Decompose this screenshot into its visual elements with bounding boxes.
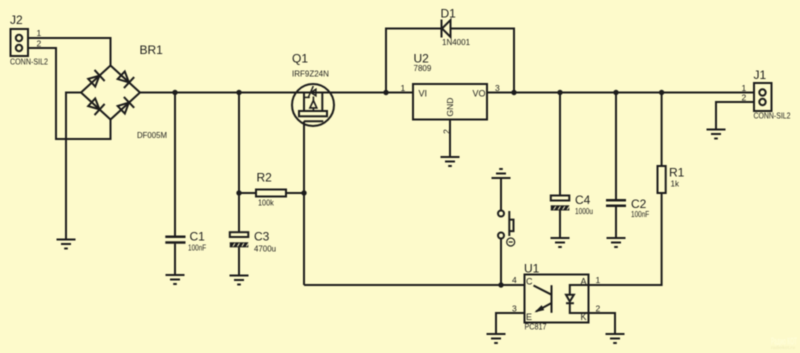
BR1 diamond body bbox=[81, 66, 140, 120]
svg-text:1: 1 bbox=[742, 83, 747, 93]
C2 top plate bbox=[606, 199, 626, 202]
svg-text:1: 1 bbox=[37, 28, 42, 38]
svg-text:VI: VI bbox=[419, 89, 428, 99]
C1 top plate bbox=[165, 235, 185, 238]
svg-text:C1: C1 bbox=[190, 230, 206, 244]
Q1 channel plate bbox=[299, 111, 327, 116]
svg-text:1000u: 1000u bbox=[575, 207, 593, 216]
capacitor C1 bbox=[165, 230, 206, 253]
svg-text:E: E bbox=[526, 312, 532, 322]
svg-text:DF005M: DF005M bbox=[137, 131, 167, 140]
svg-text:3: 3 bbox=[495, 83, 500, 93]
wire D1 top right and cathode-side vertical bbox=[451, 29, 515, 93]
wire R1 bottom lead to U1 pin1 bbox=[589, 193, 662, 285]
junction R2 right / Q1 gate bbox=[301, 190, 306, 195]
ground U1 pin2 bbox=[606, 334, 625, 343]
push button SW bbox=[492, 169, 515, 246]
svg-text:PC817: PC817 bbox=[525, 323, 547, 332]
ground bridge output bbox=[57, 240, 76, 249]
junction rail C1 bbox=[172, 90, 177, 95]
svg-text:J2: J2 bbox=[10, 13, 23, 27]
regulator U2 7809 bbox=[401, 52, 501, 134]
svg-text:GND: GND bbox=[445, 98, 455, 117]
capacitor C4 (electrolytic) bbox=[551, 193, 593, 216]
ground C2 bbox=[607, 238, 626, 247]
wire J2 pin2 to BR1 AC bottom bbox=[28, 48, 111, 139]
svg-text:VO: VO bbox=[473, 89, 486, 99]
BR1 diode bottom-right bbox=[116, 97, 134, 115]
U1 emitter arrowhead bbox=[536, 306, 544, 312]
svg-text:2: 2 bbox=[596, 304, 601, 314]
button actuator bar bbox=[508, 211, 510, 236]
wire trigger horizontal to U1 pin4 bbox=[304, 284, 525, 286]
wire C2 branch from rail bbox=[615, 93, 617, 200]
wire VOUT rail (U2 VO to J1 pin1) bbox=[487, 92, 754, 94]
svg-text:2: 2 bbox=[442, 129, 452, 134]
BR1 diode top-right bbox=[116, 70, 134, 88]
Q1 source arrow decoration bbox=[304, 96, 310, 98]
C1 bottom plate bbox=[165, 241, 185, 244]
junction rail C4 bbox=[557, 90, 562, 95]
U1 phototransistor bbox=[534, 285, 552, 313]
R2 body bbox=[256, 190, 286, 197]
wire BR1 negative output to ground bbox=[66, 93, 81, 240]
wire Q1 gate down to trigger node bbox=[303, 121, 305, 285]
Q1 drain contact bbox=[321, 93, 323, 112]
junction rail D1 anode bbox=[383, 90, 388, 95]
junction rail C3 bbox=[236, 90, 241, 95]
D1 triangle bbox=[442, 20, 451, 37]
svg-text:C3: C3 bbox=[254, 230, 270, 244]
Q1 source contact bbox=[303, 93, 305, 112]
svg-text:1: 1 bbox=[401, 83, 406, 93]
J2 pin 2 circle bbox=[16, 45, 22, 51]
ground C4 bbox=[551, 238, 570, 247]
wire R2 left lead bbox=[239, 192, 256, 194]
resistor R2 bbox=[256, 171, 286, 208]
junction R2 left / C3 bbox=[236, 190, 241, 195]
wire C1 branch from rail bbox=[174, 93, 176, 236]
svg-text:R1: R1 bbox=[669, 166, 685, 180]
svg-text:D1: D1 bbox=[441, 7, 457, 21]
junction button / trigger wire bbox=[498, 282, 503, 287]
Q1 substrate arrow bbox=[310, 101, 317, 108]
wire U1 pin3 to ground bbox=[496, 313, 525, 334]
ground U2 pin2 bbox=[441, 157, 460, 166]
svg-text:1k: 1k bbox=[671, 180, 680, 189]
svg-text:2: 2 bbox=[742, 93, 747, 103]
bridge rectifier BR1 bbox=[81, 43, 167, 140]
wire R1 top lead from rail bbox=[661, 93, 663, 167]
wire button bottom terminal to trigger node bbox=[500, 239, 502, 286]
watermark bbox=[771, 337, 797, 351]
wire C2 to ground bbox=[615, 207, 617, 238]
wire U1 pin2 to ground bbox=[589, 313, 616, 334]
inverted ground above button bbox=[492, 169, 511, 178]
svg-text:1: 1 bbox=[596, 275, 601, 285]
button interactive marker bbox=[507, 238, 515, 246]
svg-text:100nF: 100nF bbox=[188, 244, 206, 253]
wire VIN rail (BR1 + to U2 VI) bbox=[140, 92, 413, 94]
optocoupler U1 PC817 bbox=[512, 262, 601, 332]
J2 pin 1 circle bbox=[16, 35, 22, 41]
svg-text:C4: C4 bbox=[575, 193, 591, 207]
svg-text:100k: 100k bbox=[258, 199, 275, 208]
capacitor C2 bbox=[606, 197, 649, 219]
svg-text:BR1: BR1 bbox=[140, 43, 164, 57]
J1 pin 2 circle bbox=[759, 99, 765, 105]
junction rail D1 cathode bbox=[511, 90, 516, 95]
capacitor C3 (electrolytic) bbox=[230, 230, 276, 254]
U1 internal LED bbox=[566, 285, 589, 313]
ground U1 pin3 bbox=[487, 334, 506, 343]
wire button top terminal bbox=[500, 178, 502, 211]
ground C1 bbox=[166, 275, 185, 284]
svg-text:CONN-SIL2: CONN-SIL2 bbox=[754, 112, 791, 121]
U1 body bbox=[525, 275, 589, 323]
C2 bottom plate bbox=[606, 204, 626, 207]
svg-text:U1: U1 bbox=[524, 262, 540, 276]
wire U2 pin2 to ground bbox=[449, 120, 451, 158]
connector J2 bbox=[10, 13, 48, 67]
C3 positive plate bbox=[230, 232, 249, 237]
BR1 diode bottom-left bbox=[87, 97, 105, 115]
ground C3 bbox=[230, 276, 249, 285]
resistor R1 bbox=[658, 166, 685, 194]
svg-text:C: C bbox=[526, 277, 533, 287]
junction rail R1 bbox=[659, 90, 664, 95]
BR1 diode top-left bbox=[87, 70, 105, 88]
button bottom contact bbox=[498, 233, 504, 239]
svg-text:Q1: Q1 bbox=[292, 52, 308, 66]
connector J1 bbox=[742, 68, 791, 121]
wire C4 branch from rail bbox=[559, 93, 561, 196]
D1 cathode bar bbox=[441, 20, 443, 38]
svg-text:C2: C2 bbox=[631, 197, 647, 211]
svg-text:7809: 7809 bbox=[414, 64, 432, 73]
svg-text:1N4001: 1N4001 bbox=[442, 38, 471, 47]
C4 negative hatched plate bbox=[551, 205, 570, 210]
J1 pin 1 circle bbox=[759, 89, 765, 95]
svg-text:4700u: 4700u bbox=[254, 245, 276, 254]
svg-text:3: 3 bbox=[512, 304, 517, 314]
wire R2 right lead bbox=[286, 192, 304, 194]
wire D1 anode-side vertical and top left bbox=[386, 29, 442, 93]
button top contact bbox=[498, 211, 504, 217]
wire C4 to ground bbox=[559, 211, 561, 239]
R1 body bbox=[658, 166, 666, 193]
svg-text:IRF9Z24N: IRF9Z24N bbox=[292, 70, 329, 79]
wire C3 branch from rail bbox=[238, 93, 240, 233]
svg-text:2: 2 bbox=[37, 39, 42, 49]
Q1 gate bar bbox=[304, 120, 323, 122]
svg-text:J1: J1 bbox=[754, 68, 767, 82]
transistor Q1 (P-channel MOSFET) bbox=[292, 52, 334, 127]
ground J1 pin2 bbox=[707, 130, 726, 139]
wire J1 pin2 to ground bbox=[716, 102, 754, 130]
svg-text:100nF: 100nF bbox=[631, 210, 649, 219]
svg-text:R2: R2 bbox=[257, 171, 273, 185]
wire C1 to ground bbox=[174, 244, 176, 275]
svg-text:CONN-SIL2: CONN-SIL2 bbox=[10, 58, 48, 67]
C4 positive plate bbox=[551, 196, 570, 201]
Q1 envelope circle bbox=[292, 84, 334, 126]
svg-text:4: 4 bbox=[512, 275, 517, 285]
svg-text:radiokot.ru: radiokot.ru bbox=[771, 345, 795, 350]
diode D1 bbox=[441, 7, 471, 48]
wire C3 to ground bbox=[238, 247, 240, 275]
C3 negative hatched plate bbox=[230, 242, 249, 247]
wire J2 pin1 to BR1 AC top bbox=[28, 38, 111, 66]
junction rail C2 bbox=[613, 90, 618, 95]
U2 body bbox=[413, 84, 487, 120]
